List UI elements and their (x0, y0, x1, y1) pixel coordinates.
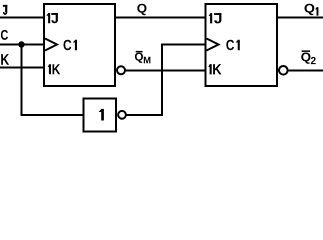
wire Q of U1 to 1J of U2 (115, 17, 206, 19)
junction dot on node C (18, 41, 24, 47)
pin label C1 (U1) (64, 40, 78, 51)
pin label 1J (U1) (46, 13, 58, 23)
pin label 1K (U2) (208, 64, 221, 74)
dynamic clock input indicator (U2) (207, 39, 219, 51)
inverter U3 label 1 (99, 109, 104, 121)
pin label C1 (U2) (226, 40, 240, 51)
output label Qbar2 (Q overline, subscript 2) (301, 50, 316, 64)
wire from node C down to inverter input (22, 45, 84, 116)
JK flip-flop U1 (master) body (44, 4, 115, 86)
wire Qbar2 output (288, 70, 323, 72)
inverter U3 output bubble (118, 111, 126, 119)
output label Q1 (Q subscript 1) (305, 4, 319, 16)
wire inverter output to C1 of U2 (127, 45, 207, 116)
dynamic clock input indicator (U1) (45, 39, 57, 51)
wire J input (0, 17, 44, 19)
net label Q (137, 4, 146, 16)
net label QbarM (Q overline, subscript M) (135, 51, 151, 64)
inverted output bubble of U1 (117, 66, 125, 74)
input label C (1, 30, 8, 40)
wire C (clock) input (0, 44, 44, 46)
input label J (barred J) (3, 5, 7, 15)
pin label 1J (U2) (209, 13, 222, 23)
wire K input (0, 67, 44, 69)
inverted output bubble of U2 (279, 66, 288, 75)
inverter U3 body (84, 99, 117, 132)
JK flip-flop U2 (slave) body (206, 4, 278, 86)
input label K (1, 54, 9, 65)
wire QbarM of U1 to 1K of U2 (126, 70, 207, 72)
wire Q1 output (277, 17, 323, 19)
pin label 1K (U1) (48, 64, 61, 74)
